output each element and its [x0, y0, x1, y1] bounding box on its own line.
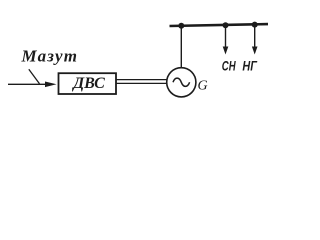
sine symbol inside generator [173, 78, 190, 86]
generator G circle [167, 68, 196, 97]
svg-text:НГ: НГ [242, 58, 258, 74]
wire: fuel input arrow line [8, 83, 48, 85]
leader line from label to fuel arrow [29, 69, 40, 84]
junction dot at НГ feeder [252, 22, 258, 28]
junction dot at СН feeder [223, 22, 229, 28]
svg-text:ДВС: ДВС [71, 75, 105, 92]
wire: НГ feeder arrow [254, 25, 256, 48]
arrowhead into ДВС box [45, 82, 57, 88]
svg-text:Мазут: Мазут [21, 46, 78, 65]
engine box ДВС [59, 73, 117, 94]
junction dot at generator feeder [178, 23, 184, 29]
shaft: double line from ДВС to generator [116, 79, 167, 81]
wire: СН feeder arrow [225, 25, 227, 48]
wire: generator to busbar [180, 26, 182, 68]
svg-text:СН: СН [222, 58, 236, 74]
svg-text:G: G [198, 79, 208, 94]
busbar [170, 24, 269, 26]
